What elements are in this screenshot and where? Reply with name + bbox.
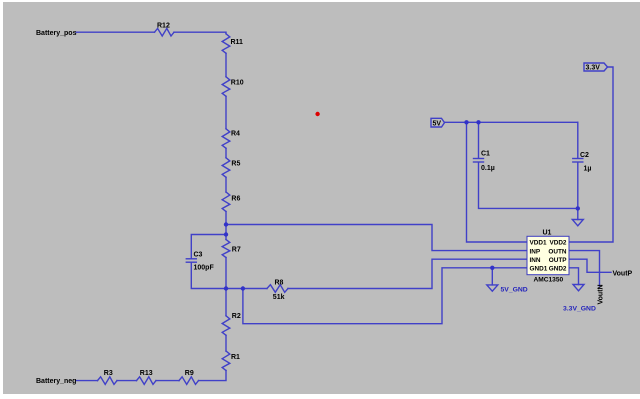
node 5V-VDD1 junction [464, 120, 468, 124]
wire R9 to R13 [156, 380, 179, 382]
wire 5V tap to C1 [478, 122, 480, 158]
resistor R2 [222, 316, 230, 336]
svg-text:R12: R12 [157, 23, 170, 30]
svg-text:R7: R7 [232, 246, 241, 253]
wire R8 to INN [288, 259, 527, 288]
svg-text:R6: R6 [231, 196, 240, 203]
wire R10 to R4 [225, 96, 227, 129]
svg-text:1µ: 1µ [584, 166, 592, 173]
svg-text:U1: U1 [543, 229, 552, 236]
node C2-ground junction [576, 206, 580, 210]
wire node C down to GND1 rail [243, 268, 527, 324]
wire R11 to R10 [225, 53, 227, 77]
wire node B to C3 top [191, 235, 226, 259]
wire R12 to top corner [174, 32, 226, 34]
resistor R10 [222, 77, 230, 97]
svg-text:R2: R2 [232, 313, 241, 320]
wire R3 to Battery_neg [76, 380, 98, 382]
svg-text:3.3V_GND: 3.3V_GND [563, 306, 596, 313]
resistor R12 [155, 28, 175, 36]
svg-text:R11: R11 [231, 39, 244, 46]
wire GND1 tap to ground [491, 268, 493, 285]
svg-text:R3: R3 [104, 370, 113, 377]
svg-text:VoutP: VoutP [613, 270, 633, 277]
wire bottom rail to R8 [226, 288, 267, 290]
wire C3 bottom to rail [191, 262, 226, 288]
svg-text:AMC1350: AMC1350 [534, 276, 564, 283]
svg-text:GND1: GND1 [530, 266, 548, 273]
resistor R13 [137, 377, 157, 385]
node 5V-C1 junction [476, 120, 480, 124]
wire OUTP to VoutP [569, 259, 611, 272]
resistor R6 [222, 192, 230, 212]
node GND1 junction [490, 266, 494, 270]
svg-text:GND2: GND2 [549, 266, 567, 273]
svg-text:R9: R9 [185, 370, 194, 377]
svg-text:OUTN: OUTN [548, 248, 566, 255]
wire R13 to R3 [117, 380, 137, 382]
svg-text:100pF: 100pF [194, 265, 215, 272]
wire R5 to R6 [225, 177, 227, 192]
capacitor C2 [573, 158, 583, 160]
svg-text:R10: R10 [231, 79, 244, 86]
wire rail to R2 [225, 289, 227, 316]
resistor R11 [222, 34, 230, 54]
wire C2 bottom to ground node [577, 162, 579, 208]
svg-text:INP: INP [530, 248, 541, 255]
wire node A to INP corner [226, 225, 527, 251]
svg-text:C3: C3 [194, 252, 203, 259]
svg-text:R8: R8 [275, 279, 284, 286]
wire C1 bottom [479, 162, 578, 208]
svg-text:0.1µ: 0.1µ [481, 165, 495, 172]
wire 3.3V to VDD2 [569, 67, 613, 242]
wire R2 to R1 [225, 335, 227, 351]
cursor red dot [315, 112, 319, 116]
svg-text:R1: R1 [231, 354, 240, 361]
capacitor C1 [474, 158, 484, 160]
resistor R7 [222, 240, 230, 258]
wire R4 to R5 [225, 148, 227, 158]
resistor R3 [98, 377, 118, 385]
svg-text:3.3V: 3.3V [586, 65, 601, 72]
wire OUTN to VoutN [569, 251, 600, 286]
svg-text:VoutN: VoutN [598, 284, 605, 304]
op-amp U1 body [527, 236, 569, 274]
node A junction (divider to INP) [224, 222, 228, 226]
svg-text:5V_GND: 5V_GND [501, 286, 528, 293]
svg-text:OUTP: OUTP [549, 257, 567, 264]
node C junction (GND1 branch) [241, 286, 245, 290]
wire R1 to bottom rail [199, 371, 227, 381]
power flag 5V [431, 118, 445, 127]
svg-text:VDD2: VDD2 [549, 240, 566, 247]
wire 5V tap to VDD1 [467, 122, 528, 242]
svg-text:51k: 51k [273, 294, 285, 301]
ground 5V_GND [487, 285, 498, 291]
svg-text:VDD1: VDD1 [530, 240, 547, 247]
wire R6 to node A [225, 212, 227, 240]
svg-text:Battery_neg: Battery_neg [36, 378, 76, 385]
svg-text:C2: C2 [580, 152, 589, 159]
node B junction (C3 tap) [224, 232, 228, 236]
resistor R4 [222, 129, 230, 149]
junction dots [224, 120, 580, 291]
capacitor C3 [186, 258, 196, 260]
svg-text:C1: C1 [481, 151, 490, 158]
svg-text:R4: R4 [231, 131, 240, 138]
resistor R9 [179, 377, 199, 385]
resistor R5 [222, 158, 230, 178]
wire 5V rail [445, 121, 578, 123]
node bottom rail junction [224, 286, 228, 290]
resistor R1 [222, 351, 230, 371]
svg-text:R5: R5 [231, 160, 240, 167]
wire R7 to bottom rail [225, 258, 227, 289]
wire 5V rail down to C2 [577, 122, 579, 158]
wire GND2 to ground [569, 268, 579, 285]
ground 3.3V_GND [573, 285, 584, 291]
svg-text:R13: R13 [140, 370, 153, 377]
resistor R8 [267, 285, 288, 293]
power flag 3.3V [584, 63, 608, 71]
wire Battery_pos to R12 [76, 31, 155, 33]
svg-text:INN: INN [530, 257, 541, 264]
svg-text:Battery_pos: Battery_pos [36, 30, 77, 37]
ground below C2 [577, 208, 579, 219]
svg-text:5V: 5V [433, 120, 442, 127]
